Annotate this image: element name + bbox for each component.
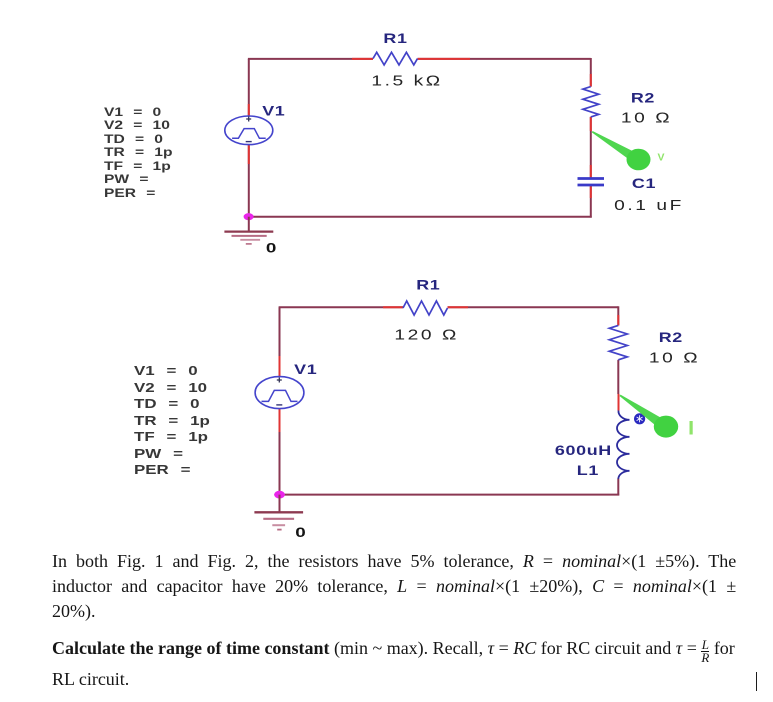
wire: Fig1 right vertical top segment (corner to R2)	[590, 58, 592, 87]
paragraph: calculate time constant line 2	[52, 668, 129, 690]
paragraph: tolerance description line 1	[52, 550, 736, 572]
wire: Fig1 right vertical bottom segment (C1 to bottom-right corner)	[590, 185, 592, 217]
svg-text:R2: R2	[659, 330, 683, 346]
wire: Fig2 right vertical bottom segment (L1 to bottom-right corner)	[617, 479, 619, 496]
text cursor	[756, 672, 758, 691]
pulse parameter list (Fig.2)	[134, 363, 210, 479]
resistor R2 (Fig.2, 10 Ohm)	[609, 325, 627, 359]
capacitor C1 (Fig.1, 0.1uF)	[578, 179, 605, 186]
junction dot: Fig2 ground node	[274, 491, 285, 499]
inductor L1 (Fig.2, 600uH)	[617, 411, 630, 479]
wire: Fig1 bottom horizontal (ground node to bottom-right corner)	[249, 216, 592, 218]
svg-text:120 Ω: 120 Ω	[394, 326, 458, 343]
wire: Fig1 left vertical from V1 bottom pin to ground junction	[248, 144, 250, 216]
svg-text:V: V	[657, 152, 664, 164]
svg-text:0: 0	[295, 524, 306, 540]
resistor R1 (Fig.1, 1.5k)	[373, 52, 418, 65]
svg-text:R2: R2	[631, 90, 655, 106]
wire: Fig2 left vertical from top-left corner down to V1 top pin	[279, 307, 281, 377]
svg-text:C1: C1	[632, 176, 656, 192]
current marker attach symbol (Fig.2, blue circled asterisk)	[635, 414, 645, 424]
svg-text:V1: V1	[262, 103, 285, 119]
probe letter I (Fig.2)	[690, 421, 693, 435]
paragraph: tolerance description line 3	[52, 600, 96, 622]
resistor R2 (Fig.1, 10 Ohm)	[583, 87, 599, 117]
svg-text:600uH: 600uH	[555, 443, 612, 459]
wire: Fig1 left vertical from top-left corner down to V1 top pin	[248, 59, 250, 116]
svg-text:0: 0	[266, 241, 277, 256]
resistor R1 (Fig.2, 120 Ohm)	[403, 301, 448, 315]
wire: Fig1 right vertical middle segment (R2 to C1)	[590, 117, 592, 178]
svg-text:L1: L1	[577, 463, 599, 479]
svg-text:R1: R1	[416, 277, 440, 293]
wire: Fig2 left vertical from V1 bottom pin to ground junction	[279, 409, 281, 495]
wire: Fig2 top horizontal left segment (corner to R1)	[279, 306, 403, 308]
svg-text:0.1 uF: 0.1 uF	[614, 196, 684, 213]
wire: Fig2 right vertical top segment (corner to R2)	[617, 306, 619, 325]
wire: Fig1 top horizontal right segment (R1 to top-right corner)	[418, 58, 591, 60]
svg-text:1.5 kΩ: 1.5 kΩ	[371, 72, 442, 89]
paragraph: calculate time constant line 1	[52, 637, 735, 663]
wire: Fig2 top horizontal right segment (R1 to top-right corner)	[448, 306, 619, 308]
svg-text:10 Ω: 10 Ω	[621, 109, 672, 126]
voltage source V1 (Fig.2 VPULSE)	[255, 377, 304, 409]
ground symbol 0 (Fig.2)	[254, 495, 303, 530]
current probe (Fig.2, green marker)	[620, 395, 679, 438]
svg-text:10 Ω: 10 Ω	[649, 349, 700, 366]
wire: Fig2 bottom horizontal (ground node to bottom-right corner)	[280, 494, 620, 496]
ground symbol 0 (Fig.1)	[224, 217, 273, 244]
junction dot: Fig1 ground node	[244, 213, 254, 220]
wire: Fig2 right vertical middle segment (R2 to L1, probe attach point)	[617, 360, 619, 411]
wire: Fig1 top horizontal left segment (corner to R1)	[248, 58, 373, 60]
paragraph: tolerance description line 2	[52, 575, 736, 597]
pulse parameter list (Fig.1)	[104, 106, 172, 201]
svg-text:V1: V1	[294, 362, 317, 378]
voltage source V1 (Fig.1 VPULSE)	[225, 116, 273, 145]
svg-text:R1: R1	[383, 31, 407, 47]
voltage probe (Fig.1, green marker)	[592, 131, 651, 170]
